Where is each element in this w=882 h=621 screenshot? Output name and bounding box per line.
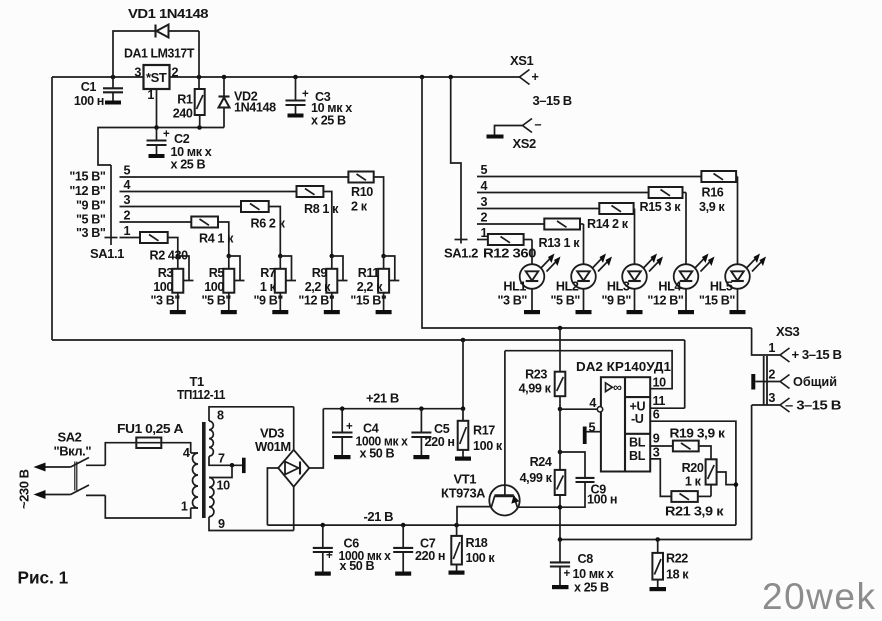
svg-text:4: 4 — [589, 396, 596, 410]
svg-text:1: 1 — [768, 341, 775, 355]
node +21V at C4 — [340, 406, 345, 411]
svg-text:100 к: 100 к — [466, 551, 496, 565]
DA2 pin 9 wire — [650, 445, 673, 447]
resistor R4 — [191, 217, 234, 257]
svg-text:+ 3–15 В: + 3–15 В — [792, 347, 842, 362]
svg-text:SA1.2: SA1.2 — [444, 246, 478, 261]
wire feed to SA1.2 — [451, 77, 461, 244]
node ladder 5 — [381, 254, 386, 259]
svg-text:х 50 В: х 50 В — [360, 447, 395, 461]
capacitor C3 — [286, 77, 353, 128]
svg-text:SA2: SA2 — [58, 430, 82, 445]
svg-text:100 н: 100 н — [74, 94, 104, 108]
capacitor C5 — [411, 409, 454, 460]
resistor R3 with tap — [150, 256, 193, 314]
resistor R18 — [449, 525, 496, 575]
fuse FU1 — [117, 421, 184, 448]
svg-text:240: 240 — [173, 107, 193, 121]
wire bottom bus (negative rail to DA2 pin 11) — [52, 339, 685, 341]
svg-text:-21 В: -21 В — [364, 509, 394, 524]
svg-text:HL3: HL3 — [607, 280, 630, 294]
svg-text:3: 3 — [481, 195, 488, 209]
wire SA1.1 contact 1 — [120, 237, 141, 239]
svg-text:"5 В": "5 В" — [76, 213, 106, 227]
node top bus at C3 — [293, 75, 298, 80]
svg-text:W01M: W01M — [255, 439, 291, 454]
svg-text:9: 9 — [653, 432, 660, 446]
svg-text:220 н: 220 н — [425, 435, 455, 449]
wire R23 to node — [559, 396, 561, 409]
DA2 pin 11 wire — [650, 407, 685, 409]
node VT1 emitter junction — [558, 505, 563, 510]
wire SA1.1 contact 4 — [120, 191, 297, 193]
svg-text:х 50 В: х 50 В — [340, 559, 375, 573]
connector XS1 — [510, 53, 572, 108]
DA2 pin 10 wire to VT1 base — [505, 351, 672, 389]
svg-text:–: – — [535, 118, 542, 132]
svg-text:"5 В": "5 В" — [201, 294, 231, 308]
svg-text:+: + — [163, 129, 170, 141]
svg-text:R16: R16 — [702, 186, 724, 200]
svg-text:"15 В": "15 В" — [699, 294, 736, 308]
wire SA1.1 contact 2 — [120, 221, 192, 223]
svg-text:– 3–15 В: – 3–15 В — [785, 398, 841, 413]
svg-text:4: 4 — [481, 179, 488, 193]
svg-text:BL: BL — [629, 436, 646, 450]
node ladder 3 — [278, 254, 283, 259]
node pin1 rail at C2 — [154, 125, 159, 130]
wire SA1.1 contact 5 — [120, 176, 349, 178]
svg-text:R10: R10 — [351, 185, 373, 199]
svg-text:R15 3 к: R15 3 к — [640, 200, 682, 214]
switch SA1.2 wiper tick — [455, 239, 468, 241]
svg-text:4,99 к: 4,99 к — [519, 382, 552, 396]
svg-text:"9 В": "9 В" — [601, 294, 631, 308]
wire positive line to XS3 pin1 — [422, 77, 752, 328]
wire R24 bottom column — [559, 495, 561, 540]
svg-text:"9 В": "9 В" — [76, 199, 106, 213]
node +21V at R17 — [461, 406, 466, 411]
svg-text:3: 3 — [768, 391, 775, 405]
svg-text:"12 В": "12 В" — [69, 184, 106, 198]
svg-text:VT1: VT1 — [454, 472, 477, 487]
svg-text:R23: R23 — [525, 368, 547, 382]
svg-text:11: 11 — [653, 394, 666, 408]
svg-text:9: 9 — [218, 517, 225, 531]
resistor R1 — [173, 77, 205, 128]
svg-text:х 25 В: х 25 В — [311, 114, 346, 128]
svg-text:10: 10 — [653, 376, 667, 390]
node transformer centre tap — [230, 463, 235, 468]
svg-text:"12 В": "12 В" — [647, 294, 684, 308]
svg-text:3: 3 — [653, 445, 660, 459]
svg-text:R18: R18 — [466, 536, 488, 550]
svg-text:HL4: HL4 — [658, 280, 681, 294]
node inverting input — [558, 407, 563, 412]
switch SA1.1 pole — [110, 165, 112, 245]
node -21V at C6 — [321, 523, 326, 528]
wire top output bus — [52, 76, 520, 78]
node pin1 rail at R1 — [197, 125, 202, 130]
svg-text:R6 2 к: R6 2 к — [251, 217, 286, 231]
svg-text:5: 5 — [589, 421, 596, 435]
svg-text:10 мк х: 10 мк х — [573, 567, 614, 581]
node -21V at C7 — [401, 523, 406, 528]
resistor R13 — [539, 219, 584, 251]
node top bus at x=450.7 — [448, 75, 453, 80]
switch SA2 — [34, 430, 106, 500]
svg-text:∞: ∞ — [613, 381, 622, 395]
svg-text:"5 В": "5 В" — [550, 294, 580, 308]
LED HL3 — [601, 209, 663, 315]
resistor R15 — [640, 187, 687, 214]
wire C8 rail — [560, 539, 752, 541]
capacitor C7 — [393, 525, 445, 576]
capacitor C1 — [74, 77, 123, 108]
svg-text:2: 2 — [124, 209, 131, 223]
svg-text:+: + — [302, 89, 309, 101]
connector XS2 — [487, 118, 542, 152]
wire DA1 pin1 rail — [98, 89, 224, 165]
svg-text:C4: C4 — [363, 422, 379, 436]
svg-text:R12 360: R12 360 — [483, 247, 536, 261]
svg-text:5: 5 — [481, 163, 488, 177]
svg-text:+: + — [532, 70, 539, 84]
svg-text:C5: C5 — [434, 422, 450, 436]
svg-text:7: 7 — [218, 452, 225, 466]
capacitor C8 — [550, 540, 614, 595]
wire outer loop left edge — [51, 77, 53, 340]
svg-text:100 к: 100 к — [473, 439, 503, 453]
resistor R11 with tap — [350, 256, 399, 314]
node C8 rail at R22 — [655, 537, 660, 542]
node top bus at C1 — [111, 75, 116, 80]
resistor R22 — [650, 540, 690, 592]
svg-text:+: + — [346, 421, 353, 433]
LED HL5 — [699, 177, 766, 315]
svg-text:220 н: 220 н — [415, 549, 445, 563]
svg-text:R14 2 к: R14 2 к — [587, 217, 629, 231]
svg-text:20wek: 20wek — [762, 576, 876, 617]
svg-text:R8 1 к: R8 1 к — [304, 202, 339, 216]
svg-text:+: + — [326, 550, 333, 562]
svg-text:R3: R3 — [158, 266, 174, 280]
svg-text:8: 8 — [217, 409, 224, 423]
DA2 pin 5 with common bar — [583, 421, 601, 445]
svg-text:3: 3 — [124, 193, 131, 207]
svg-text:"3 В": "3 В" — [497, 294, 527, 308]
svg-text:3: 3 — [134, 66, 141, 80]
svg-text:R19 3,9 к: R19 3,9 к — [670, 427, 726, 441]
svg-text:HL1: HL1 — [503, 280, 526, 294]
node top bus at x=422 — [420, 75, 425, 80]
common bar at centre tap — [242, 458, 246, 473]
svg-text:C8: C8 — [578, 552, 594, 566]
svg-text:SA1.1: SA1.1 — [90, 246, 124, 261]
svg-text:R7: R7 — [260, 266, 276, 280]
svg-text:+21 В: +21 В — [366, 391, 399, 406]
svg-text:2,2 к: 2,2 к — [357, 280, 383, 294]
node top bus at R1 — [197, 75, 202, 80]
wire VD3 minus output — [267, 468, 278, 525]
LED HL4 — [647, 193, 714, 315]
svg-text:1 к: 1 к — [685, 475, 702, 489]
svg-text:R13 1 к: R13 1 к — [539, 236, 581, 250]
wire R23 column from positive line — [559, 328, 561, 372]
svg-text:"9 В": "9 В" — [253, 294, 283, 308]
wire DA2 pin11 riser — [684, 340, 686, 408]
node R20 tap to -U line — [734, 482, 739, 487]
svg-text:2: 2 — [481, 211, 488, 225]
svg-text:100: 100 — [204, 280, 224, 294]
svg-text:-U: -U — [631, 412, 644, 426]
svg-text:R22: R22 — [666, 552, 688, 566]
resistor R9 with tap — [298, 256, 347, 314]
capacitor C2 — [147, 128, 212, 172]
svg-text:~230 В: ~230 В — [17, 469, 32, 509]
svg-text:R1: R1 — [177, 93, 193, 107]
svg-text:R21 3,9 к: R21 3,9 к — [665, 505, 724, 519]
svg-text:"3 В": "3 В" — [150, 294, 180, 308]
svg-text:R20: R20 — [682, 461, 704, 475]
svg-text:100: 100 — [153, 280, 173, 294]
transformer T1 primary winding — [181, 446, 198, 514]
resistor R6 — [241, 201, 286, 256]
svg-text:2 к: 2 к — [351, 200, 368, 214]
transformer T1 core — [202, 422, 206, 518]
wire to DA2 pin 4 — [560, 408, 597, 410]
svg-text:R4 1 к: R4 1 к — [199, 232, 234, 246]
svg-text:XS2: XS2 — [513, 136, 536, 151]
wire primary loop — [105, 443, 190, 518]
resistor R23 — [519, 368, 566, 397]
svg-text:DA2 КР140УД1: DA2 КР140УД1 — [576, 359, 671, 374]
wire SA1.2 contact 3 — [477, 208, 599, 210]
node ladder 1 — [176, 254, 181, 259]
wire SA1.1 contact 3 — [120, 206, 242, 208]
svg-text:"15 В": "15 В" — [350, 294, 387, 308]
svg-text:"12 В": "12 В" — [298, 294, 335, 308]
resistor R8 — [297, 186, 340, 256]
connector XS3 — [751, 324, 841, 540]
transistor VT1 — [441, 351, 560, 525]
resistor R7 with tap — [253, 256, 296, 314]
node bottom bus at x=463 — [461, 338, 466, 343]
svg-text:4: 4 — [183, 446, 190, 460]
svg-text:1: 1 — [147, 88, 154, 102]
wire SA1.2 contact 2 — [477, 223, 544, 225]
svg-text:XS3: XS3 — [776, 324, 799, 339]
node ladder 2 — [227, 254, 232, 259]
resistor R21 — [665, 491, 724, 518]
svg-text:BL: BL — [629, 449, 646, 463]
svg-text:1: 1 — [124, 224, 131, 238]
svg-text:х 25 В: х 25 В — [171, 158, 206, 172]
svg-text:100 н: 100 н — [587, 493, 617, 507]
wire VD3 plus output — [309, 409, 323, 468]
switch SA1.1 wiper tick — [105, 237, 118, 239]
node positive line at R23 — [558, 326, 563, 331]
wire bottom bus drop to +21V rail — [462, 340, 464, 409]
bridge rectifier VD3 — [255, 407, 309, 531]
svg-text:1: 1 — [481, 226, 488, 240]
resistor R19 — [670, 427, 726, 460]
svg-text:FU1 0,25 А: FU1 0,25 А — [117, 421, 184, 436]
transformer T1 secondary winding 8-7 — [209, 407, 294, 466]
resistor R24 — [520, 455, 566, 495]
resistor R16 — [699, 171, 738, 214]
svg-text:R9: R9 — [312, 266, 328, 280]
node R23/R24 junction — [558, 450, 563, 455]
node top bus at VD2 — [222, 75, 227, 80]
wire SA1.2 contact 4 — [477, 192, 649, 194]
svg-text:Общий: Общий — [793, 374, 837, 389]
svg-text:х 25 В: х 25 В — [574, 581, 609, 595]
svg-text:R17: R17 — [473, 424, 495, 438]
resistor R2 — [140, 232, 188, 263]
resistor R17 — [455, 409, 503, 461]
wire node column — [559, 409, 561, 470]
svg-text:4: 4 — [124, 178, 131, 192]
svg-text:10: 10 — [217, 479, 231, 493]
wire SA1.2 contact 5 — [477, 176, 701, 178]
svg-text:VD1 1N4148: VD1 1N4148 — [128, 6, 208, 21]
svg-text:2,2 к: 2,2 к — [305, 280, 331, 294]
svg-text:6: 6 — [653, 408, 660, 422]
svg-text:ТП112-11: ТП112-11 — [177, 387, 225, 402]
svg-text:3–15 В: 3–15 В — [533, 93, 572, 108]
DA2 pin 4 open circle — [597, 407, 602, 412]
resistor R14 — [587, 203, 635, 231]
svg-text:DA1 LM317T: DA1 LM317T — [124, 46, 194, 61]
node +21V at C5 — [419, 406, 424, 411]
diode VD2 — [219, 77, 277, 128]
svg-text:18 к: 18 к — [666, 568, 689, 582]
wire SA1.2 contact 1 — [477, 239, 488, 241]
svg-text:+: + — [564, 568, 571, 580]
svg-text:1 к: 1 к — [260, 280, 277, 294]
capacitor C4 — [332, 409, 408, 461]
resistor R20 with tap — [682, 459, 736, 496]
capacitor C6 — [313, 525, 391, 576]
svg-text:4,99 к: 4,99 к — [520, 471, 553, 485]
svg-text:*ST: *ST — [146, 70, 167, 85]
wire -21V rail — [267, 524, 736, 526]
svg-text:R11: R11 — [358, 266, 380, 280]
node ladder 4 — [330, 254, 335, 259]
svg-text:C1: C1 — [81, 80, 97, 94]
svg-text:R24: R24 — [530, 455, 552, 469]
svg-text:2: 2 — [768, 368, 775, 382]
resistor R5 with tap — [201, 256, 244, 314]
svg-text:R5: R5 — [209, 266, 225, 280]
DA2 pin 3 wire — [650, 459, 671, 497]
svg-text:XS1: XS1 — [510, 53, 533, 68]
node C8 rail left — [558, 537, 563, 542]
svg-text:2: 2 — [172, 66, 179, 80]
svg-text:3,9 к: 3,9 к — [699, 200, 725, 214]
svg-text:5: 5 — [124, 164, 131, 178]
svg-text:C2: C2 — [174, 132, 190, 146]
svg-text:Рис. 1: Рис. 1 — [18, 568, 69, 588]
svg-text:HL2: HL2 — [556, 280, 579, 294]
regulator DA1 LM317T — [124, 46, 194, 103]
transformer T1 secondary winding 10-9 — [209, 465, 294, 531]
LED HL1 — [497, 240, 560, 315]
svg-text:КТ973А: КТ973А — [441, 486, 486, 501]
diode VD1 — [113, 6, 208, 77]
wire +21V rail — [323, 408, 463, 410]
svg-text:"3 В": "3 В" — [76, 226, 106, 240]
svg-text:1N4148: 1N4148 — [234, 101, 276, 115]
resistor R10 — [348, 172, 383, 257]
DA2 pin 6 wire to -21V — [650, 421, 736, 525]
svg-text:"15 В": "15 В" — [69, 170, 106, 184]
op-amp DA2 КР140УД1 — [576, 359, 671, 472]
node -21V at R18/VT1 — [454, 523, 459, 528]
svg-text:HL5: HL5 — [710, 280, 733, 294]
resistor R12 — [483, 234, 536, 261]
LED HL2 — [550, 224, 612, 314]
capacitor C9 — [560, 452, 617, 507]
svg-text:"Вкл.": "Вкл." — [54, 444, 92, 459]
svg-text:1: 1 — [181, 500, 188, 514]
